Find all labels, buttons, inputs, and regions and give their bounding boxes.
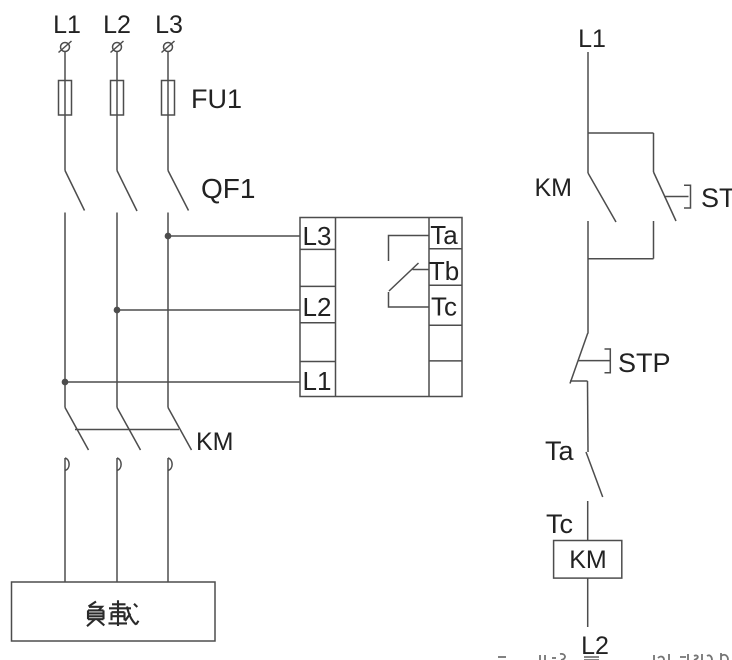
wire Ta to coil (587, 501, 589, 541)
contactor KM linkage (75, 429, 179, 431)
relay wire Tb (413, 269, 430, 271)
load box (12, 582, 216, 641)
STP actuator bracket (605, 349, 611, 373)
button ST arm (654, 172, 677, 221)
junction node L3 (165, 233, 170, 238)
junction node L2 (114, 307, 119, 312)
contact Ta arm (586, 452, 603, 497)
coil KM box (554, 541, 622, 579)
wire STP to Ta (587, 381, 590, 452)
wire to load 3 (167, 458, 169, 582)
wire phase2 drop (116, 52, 118, 171)
breaker QF1 pole 1 (65, 171, 85, 211)
breaker QF1 pole 3 (168, 171, 189, 211)
button ST upper wire (653, 133, 655, 172)
svg-text:Ta: Ta (545, 436, 575, 466)
svg-text:L3: L3 (303, 221, 332, 251)
STP actuator link (579, 360, 611, 362)
wire to load 1 (64, 458, 66, 582)
wire phase1 drop (64, 52, 66, 171)
terminal L3 (162, 41, 175, 53)
relay right cell divider (428, 218, 430, 397)
ST actuator link (664, 196, 689, 198)
svg-text:L1: L1 (53, 11, 81, 39)
wire L1 to block (65, 381, 300, 383)
branch bottom wire (588, 258, 654, 260)
svg-text:L2: L2 (581, 632, 609, 660)
svg-text:L2: L2 (303, 292, 332, 322)
socket terminal 1 (65, 458, 69, 471)
svg-text:Tc: Tc (431, 292, 457, 322)
fuse FU1 pole 3 (162, 81, 175, 116)
contactor KM pole 3 (168, 408, 192, 451)
wire L3 to block (168, 235, 300, 237)
contact KM aux arm (588, 173, 616, 222)
svg-text:ST: ST (701, 183, 732, 213)
svg-text:KM: KM (569, 546, 607, 574)
svg-text:L1: L1 (303, 366, 332, 396)
relay block outline (300, 218, 462, 397)
control wire from L1 (587, 52, 589, 133)
fuse FU1 pole 1 (59, 81, 72, 116)
contactor KM pole 2 (117, 408, 141, 451)
wire col3 mid (167, 213, 169, 408)
socket terminal 2 (117, 458, 121, 471)
svg-text:Ta: Ta (430, 220, 458, 250)
wire col1 mid (64, 213, 66, 408)
relay contact arm (389, 263, 419, 291)
svg-text:L2: L2 (103, 11, 131, 39)
svg-text:QF1: QF1 (201, 173, 255, 204)
relay right cell lines (429, 249, 462, 361)
relay left cell divider (335, 218, 337, 397)
relay wire Ta (389, 236, 430, 262)
terminal L2 (111, 41, 124, 53)
terminal L1 (59, 41, 72, 53)
svg-text:FU1: FU1 (191, 84, 242, 114)
svg-text:Tb: Tb (429, 256, 459, 286)
watermark fragments (498, 653, 728, 660)
button STP arm (570, 333, 588, 383)
wire col2 mid (116, 213, 118, 408)
junction node L1 (62, 379, 67, 384)
button ST lower wire (653, 221, 655, 259)
svg-text:Tc: Tc (546, 509, 573, 539)
contact KM aux upper wire (587, 133, 589, 173)
branch top wire (588, 132, 654, 134)
breaker QF1 pole 2 (117, 171, 137, 212)
fuse FU1 pole 2 (111, 81, 124, 116)
wire to load 2 (116, 458, 118, 582)
svg-text:KM: KM (535, 174, 573, 202)
wire coil to L2 (587, 578, 589, 627)
svg-text:L3: L3 (155, 11, 183, 39)
svg-text:STP: STP (618, 348, 671, 378)
relay wire Tc (389, 292, 430, 307)
wire L2 to block (117, 309, 300, 311)
wire phase3 drop (167, 52, 169, 171)
contactor KM pole 1 (65, 408, 89, 451)
socket terminal 3 (168, 458, 172, 471)
svg-text:KM: KM (196, 428, 234, 456)
relay left cell lines (300, 249, 336, 361)
ST actuator bracket (684, 185, 691, 208)
label load (Chinese) (87, 600, 139, 626)
svg-text:L1: L1 (578, 25, 606, 53)
STP seat (570, 380, 588, 382)
wire below KM aux (587, 221, 589, 334)
